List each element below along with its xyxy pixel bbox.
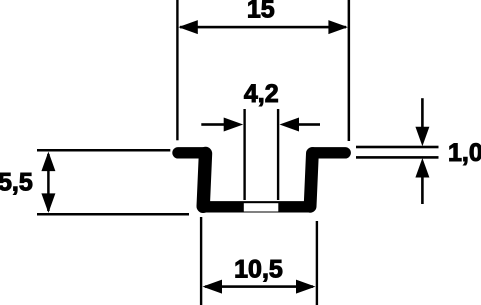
profile outline (hat channel cross-section) <box>178 153 345 207</box>
dim 15: left extension line <box>176 0 178 140</box>
dim 10,5: right extension line <box>316 221 318 305</box>
dim 10,5: right arrowhead <box>296 280 316 294</box>
dim 1,0: bottom extension line <box>356 156 439 159</box>
dim 1,0: up arrowhead <box>415 158 429 178</box>
profile right wall (thicker) <box>310 154 312 207</box>
dim 4,2: left extension line <box>243 109 245 200</box>
svg-text:10,5: 10,5 <box>234 256 283 284</box>
svg-text:4,2: 4,2 <box>244 80 279 108</box>
slot in profile bottom <box>244 203 278 211</box>
dim 10,5: left arrowhead <box>203 280 223 294</box>
dim 15: right extension line <box>348 0 351 141</box>
svg-text:1,0: 1,0 <box>448 139 481 167</box>
dim 10,5: left extension line <box>200 217 202 305</box>
dim 15: left arrowhead <box>178 20 198 34</box>
dim 15: dimension line <box>180 26 346 29</box>
dim 5,5: up arrowhead <box>41 152 55 172</box>
dim 1,0: top extension line <box>356 146 439 149</box>
dim 4,2: right arrowhead <box>280 118 300 132</box>
svg-text:5,5: 5,5 <box>0 169 33 197</box>
dim 5,5: bottom extension line <box>37 213 189 216</box>
dim 1,0: upper dimension line <box>421 98 424 130</box>
dim 4,2: right extension line <box>277 109 279 200</box>
dim 4,2: left arrowhead <box>224 118 244 132</box>
profile left wall (thicker) <box>203 154 205 207</box>
dim 10,5: dimension line <box>205 285 313 288</box>
svg-text:15: 15 <box>247 0 275 23</box>
dim 1,0: lower dimension line <box>421 174 424 204</box>
dim 15: right arrowhead <box>328 20 348 34</box>
dim 5,5: down arrowhead <box>41 193 55 213</box>
dim 5,5: top extension line <box>37 149 170 152</box>
dim 4,2: right dimension line <box>297 123 321 126</box>
dim 5,5: dimension line <box>47 154 50 211</box>
dim 1,0: down arrowhead <box>415 127 429 147</box>
dim 4,2: left dimension line <box>201 123 225 126</box>
